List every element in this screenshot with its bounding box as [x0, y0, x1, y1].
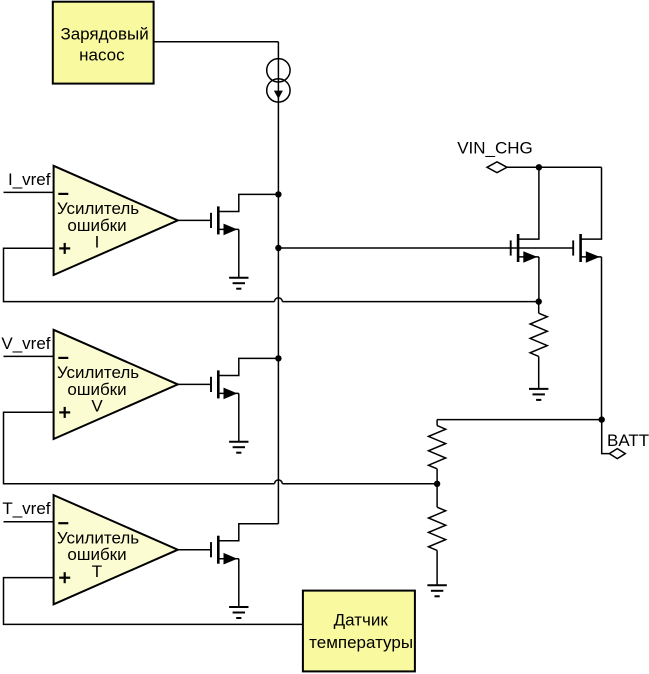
junction VIN_CHG / M1 drain: [536, 164, 542, 170]
wire feedback I (+) input: [4, 248, 275, 301]
wire I_vref input: [4, 191, 54, 193]
node VIN_CHG diamond: [487, 162, 507, 173]
wire feedback V (+) input: [4, 412, 275, 484]
svg-text:T_vref: T_vref: [2, 499, 50, 518]
junction feedback I / R1 / M1 source: [536, 298, 542, 304]
svg-text:V: V: [91, 397, 103, 416]
junction M2 source / divider / BATT: [599, 416, 605, 422]
svg-text:Датчик: Датчик: [334, 610, 389, 629]
svg-text:I: I: [95, 233, 100, 252]
resistor R3 (divider bottom): [429, 484, 446, 586]
wire feedback T (+) input from temperature sensor: [4, 578, 303, 625]
transistor Q_T (NMOS driven by U_T): [178, 524, 279, 607]
ground below R1: [529, 389, 548, 400]
ground below Q_T: [229, 607, 248, 618]
transistor M2: [573, 167, 601, 419]
svg-text:температуры: температуры: [309, 633, 413, 652]
resistor R1 (current sense): [530, 302, 547, 389]
charge pump box (Зарядовый насос): [53, 2, 154, 84]
wire VIN_CHG rail: [507, 166, 602, 168]
junction rail/Q_V drain: [275, 355, 281, 361]
wire to BATT diamond: [602, 420, 610, 454]
wire BATT node horizontal: [437, 419, 602, 421]
svg-text:Зарядовый: Зарядовый: [60, 25, 148, 44]
wire charge pump output: [154, 41, 279, 43]
temperature sensor box (Датчик температуры): [303, 591, 415, 672]
op-amp U_T (error amplifier T): [54, 495, 178, 604]
wire T_vref input: [4, 521, 54, 523]
svg-text:насос: насос: [79, 45, 125, 64]
op-amp U_V (error amplifier V): [54, 330, 178, 439]
junction rail/gate line: [275, 245, 281, 251]
svg-text:BATT: BATT: [607, 431, 649, 450]
svg-text:T: T: [92, 562, 102, 581]
svg-text:I_vref: I_vref: [8, 170, 51, 189]
junction rail/Q_I drain: [275, 191, 281, 197]
wire main vertical rail: [277, 42, 279, 524]
current source I1 (charge pump output): [267, 59, 290, 103]
node BATT diamond: [609, 449, 625, 459]
resistor R2 (divider top): [429, 420, 446, 484]
junction feedback V / divider tap: [434, 481, 440, 487]
svg-text:VIN_CHG: VIN_CHG: [457, 138, 533, 157]
op-amp U_I (error amplifier I): [54, 166, 178, 275]
ground below Q_V: [229, 442, 248, 453]
transistor M1 (pass device): [511, 167, 539, 301]
svg-text:V_vref: V_vref: [1, 334, 50, 353]
ground below R3: [427, 585, 446, 596]
transistor Q_I (NMOS driven by U_I): [178, 194, 279, 277]
ground below Q_I: [229, 278, 248, 289]
wire V_vref input: [4, 355, 54, 357]
transistor Q_V (NMOS driven by U_V): [178, 358, 279, 441]
wire gate drive to M1,M2: [278, 247, 573, 249]
